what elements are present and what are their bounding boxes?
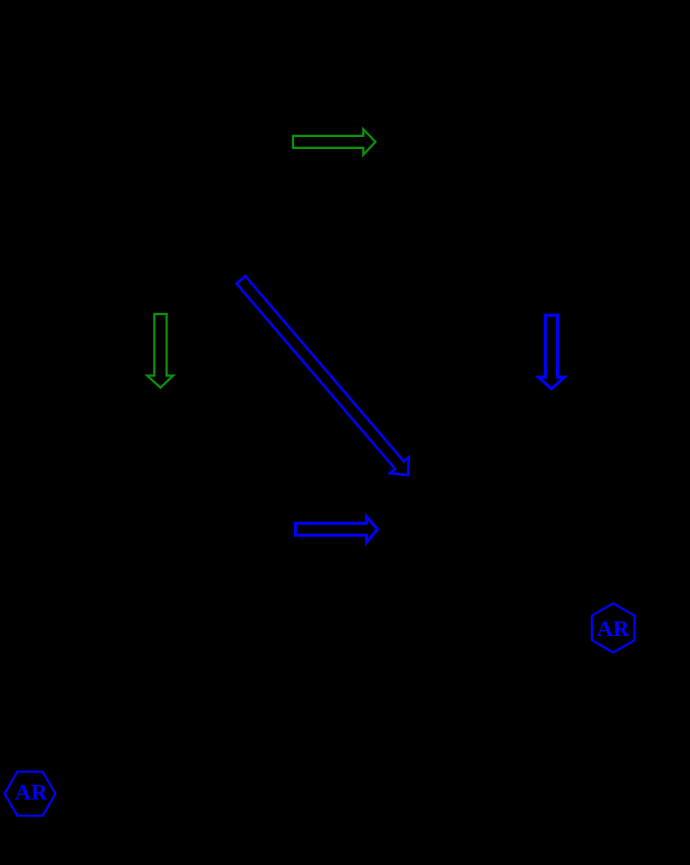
- blue hexagon AR (flat-top, bottom left): [5, 772, 56, 816]
- blue diagonal block arrow (center, pointing down-right): [232, 272, 418, 483]
- svg-text:AR: AR: [597, 616, 630, 641]
- green right block arrow (top center): [293, 129, 375, 155]
- blue hexagon AR (pointy-top, right lower): [592, 603, 635, 652]
- blue down block arrow (right middle): [538, 315, 564, 389]
- svg-text:AR: AR: [15, 780, 48, 805]
- green down block arrow (left middle): [147, 314, 173, 388]
- blue right block arrow (center lower): [295, 517, 377, 543]
